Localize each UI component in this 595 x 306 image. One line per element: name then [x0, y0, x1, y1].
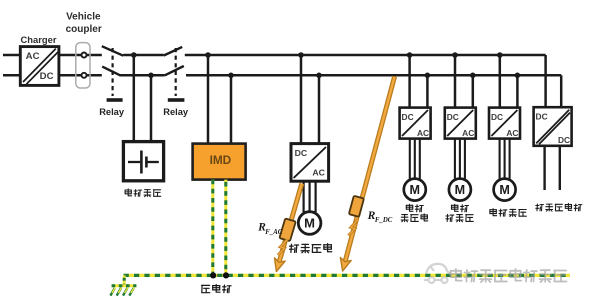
aux2 DC/AC diagonal — [447, 110, 473, 136]
vehicle coupler outline — [76, 43, 90, 88]
DC/DC converter box — [534, 107, 572, 146]
HV bus negative (bottom) — [186, 74, 561, 77]
relay 2 top contact blade — [164, 47, 182, 56]
aux1 motor M — [404, 179, 426, 201]
charger diagonal lines — [23, 49, 56, 82]
R_F_AC fault path shaft — [279, 184, 301, 262]
junction IMD positive — [205, 52, 211, 58]
junction aux1 negative — [425, 73, 431, 79]
IMD earth lead 1 (green/yellow) — [211, 180, 214, 274]
label vehicle ground (che liang di) — [202, 285, 232, 293]
wire battery negative drop — [150, 75, 153, 143]
label electric steering pump — [452, 204, 469, 212]
coupler contact bottom — [82, 73, 87, 78]
junction drive inverter positive — [298, 52, 304, 58]
junction aux3 negative — [515, 73, 521, 79]
wire drive inverter negative drop — [318, 75, 321, 144]
aux3 DC/AC converter box — [489, 108, 520, 139]
svg-text:DC: DC — [491, 112, 503, 122]
junction aux2 positive — [452, 52, 458, 58]
aux3 motor M — [494, 179, 516, 201]
aux2 motor M — [449, 179, 471, 201]
R_F_DC breakdown bolt — [348, 220, 357, 236]
svg-text:M: M — [499, 183, 510, 197]
svg-text:M: M — [410, 183, 421, 197]
svg-text:Charger: Charger — [21, 34, 57, 45]
wire aux1 negative drop — [426, 75, 429, 107]
svg-text:AC: AC — [26, 51, 40, 62]
relay 1 bottom contact blade — [102, 67, 120, 76]
svg-text:DC: DC — [447, 112, 459, 122]
label electric air conditioning — [490, 209, 527, 217]
wire dcdc negative drop — [560, 75, 563, 107]
IMD insulation monitoring device box — [193, 144, 246, 180]
svg-text:M: M — [455, 183, 466, 197]
junction aux2 negative — [470, 73, 476, 79]
ground symbol drop — [123, 275, 126, 285]
wire charger to coupler bottom — [59, 74, 102, 77]
aux3 DC/AC diagonal — [491, 110, 517, 136]
svg-text:F_AC: F_AC — [265, 229, 282, 236]
junction bottom to battery — [148, 73, 154, 79]
svg-text:Relay: Relay — [99, 107, 125, 117]
wire charger to coupler top — [59, 54, 102, 57]
wire bottom between relays — [120, 74, 164, 77]
drive inverter diagonal — [294, 147, 326, 178]
svg-text:M: M — [304, 216, 315, 231]
svg-text:AC: AC — [417, 128, 429, 138]
wire top between relays — [123, 54, 164, 57]
svg-text:Relay: Relay — [163, 107, 189, 117]
R_F_DC fault path shaft — [345, 77, 394, 261]
junction aux1 positive — [407, 52, 413, 58]
aux1 DC/AC converter box — [400, 108, 431, 139]
wire AC input top — [3, 54, 20, 57]
junction IMD negative — [228, 73, 234, 79]
wire aux2 negative drop — [472, 75, 475, 107]
label drive system (qu dong xi tong) — [290, 244, 332, 253]
wire aux3 negative drop — [516, 75, 519, 107]
dcdc LV output lines — [543, 146, 545, 190]
aux1 DC/AC diagonal — [402, 110, 428, 136]
aux1 3-phase lines — [409, 139, 411, 179]
junction IMD earth 1 — [210, 272, 216, 278]
wire AC input bottom — [3, 74, 20, 77]
aux3 3-phase lines — [499, 139, 501, 179]
IMD earth lead 2 (green/yellow) — [224, 180, 227, 274]
watermark text EV powertrain — [451, 269, 567, 282]
junction top to battery — [131, 52, 137, 58]
relay 2 bottom contact blade — [165, 66, 184, 75]
wire IMD negative drop — [230, 75, 233, 144]
svg-text:DC: DC — [295, 148, 308, 158]
wire drive inverter positive drop — [300, 55, 303, 144]
svg-text:AC: AC — [312, 167, 325, 177]
junction aux3 positive — [497, 52, 503, 58]
wire dcdc positive drop — [544, 55, 547, 107]
ground symbol hatches — [110, 288, 114, 296]
battery box (energy storage) — [123, 142, 163, 181]
label low voltage battery — [536, 203, 582, 211]
junction drive inverter negative — [316, 73, 322, 79]
svg-text:coupler: coupler — [66, 24, 102, 35]
watermark logo — [424, 264, 451, 283]
DC/DC diagonal — [536, 110, 569, 144]
wire aux2 positive drop — [454, 55, 457, 108]
label electric air compressor — [406, 204, 423, 212]
svg-text:DC: DC — [40, 71, 54, 82]
wire aux1 positive drop — [408, 55, 411, 108]
aux2 DC/AC converter box — [445, 108, 476, 139]
vehicle ground line (green/yellow) — [124, 274, 570, 277]
R_F_AC insulation resistance — [279, 218, 295, 241]
coupler contact top — [82, 53, 87, 58]
svg-text:AC: AC — [462, 128, 474, 138]
R_F_DC arrowhead — [340, 258, 351, 272]
drive 3-phase lines — [303, 181, 305, 212]
aux2 3-phase lines — [454, 139, 456, 179]
relay 2 ground bar — [168, 98, 185, 102]
R_F_AC arrowhead — [275, 258, 286, 272]
relay 1 top contact blade — [102, 46, 123, 56]
svg-text:Vehicle: Vehicle — [66, 12, 101, 23]
svg-text:AC: AC — [506, 128, 518, 138]
charger AC/DC converter box — [20, 47, 59, 86]
relay 1 ground bar — [107, 98, 123, 102]
drive motor M — [298, 212, 321, 235]
svg-text:DC: DC — [402, 112, 414, 122]
wire aux3 positive drop — [499, 55, 502, 108]
svg-text:DC: DC — [558, 135, 570, 145]
wire battery positive drop — [133, 55, 136, 143]
svg-text:DC: DC — [536, 112, 548, 122]
label energy storage system (chu neng xi tong) — [125, 189, 161, 197]
junction IMD earth 2 — [223, 272, 229, 278]
relay 1 linkage dashed — [111, 48, 113, 96]
R_F_DC insulation resistance — [349, 196, 364, 217]
wire IMD positive drop — [207, 55, 210, 144]
HV bus positive (top) — [185, 54, 546, 57]
battery cell symbol — [128, 161, 140, 163]
ground symbol bar — [112, 284, 137, 287]
drive DC/AC inverter box — [291, 144, 329, 182]
relay 2 linkage dashed — [175, 48, 177, 96]
svg-text:F_DC: F_DC — [375, 217, 393, 224]
R_F_AC breakdown bolt — [278, 240, 287, 256]
svg-text:IMD: IMD — [210, 153, 232, 167]
